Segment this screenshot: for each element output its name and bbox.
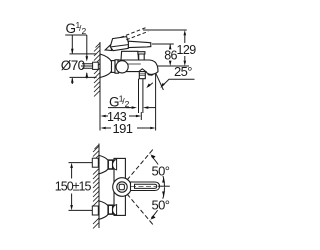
underline of G 1/2 xyxy=(65,34,87,36)
svg-text:25°: 25° xyxy=(174,64,192,79)
nipple collar square in wall xyxy=(93,62,99,69)
Ø70 extension lines xyxy=(70,54,97,78)
faucet body (bottom view) xyxy=(114,158,125,215)
svg-text:191: 191 xyxy=(113,121,133,136)
lever handle bar xyxy=(128,41,150,47)
dimension line 150±15 xyxy=(71,168,73,205)
dimension 143 xyxy=(106,115,136,117)
spout outlet direction line 25° xyxy=(156,73,164,90)
svg-text:50°: 50° xyxy=(152,163,170,178)
lever cap (side view) xyxy=(110,37,129,51)
label Ø70 xyxy=(61,58,85,73)
label 50° up xyxy=(151,163,171,178)
supply fitting square top xyxy=(92,158,98,167)
svg-text:150±15: 150±15 xyxy=(55,180,92,194)
arc 50° down xyxy=(151,187,164,218)
pivot outer circle xyxy=(113,178,132,197)
ext line top (129) xyxy=(143,29,187,31)
up arrow nipple bottom xyxy=(86,73,88,79)
Ø70 leader line xyxy=(81,65,94,67)
lever bar (bottom view) xyxy=(131,182,160,191)
label G 1/2 (top) xyxy=(66,20,87,36)
escutcheon cone bottom (bottom view) xyxy=(99,201,108,219)
angle arrow at hose line xyxy=(148,83,153,87)
ext line (86) from lever xyxy=(152,43,174,45)
lever bar inner detail xyxy=(135,184,157,188)
dashed raised-lever lines xyxy=(121,27,149,39)
leader arrow from G1/2 down (left, to Ø70 top ext) xyxy=(71,35,73,53)
union nut bottom (bottom view) xyxy=(108,205,113,214)
wall line (side view) xyxy=(99,42,101,96)
label 150±15 xyxy=(55,180,92,194)
dashed 50° line up xyxy=(127,154,150,181)
union nut top (bottom view) xyxy=(108,160,113,169)
leader arrow from G1/2 down (right, to nipple) xyxy=(86,35,88,57)
dimension 129 xyxy=(184,36,186,61)
dimension 86 xyxy=(169,44,171,61)
spout mouth lip xyxy=(148,74,154,75)
diverter knob on spout top xyxy=(138,52,145,54)
pipe nipple through wall xyxy=(82,64,98,68)
svg-text:50°: 50° xyxy=(152,197,170,212)
svg-text:86: 86 xyxy=(164,48,177,62)
escutcheon cone top (bottom view) xyxy=(99,155,108,173)
union circle xyxy=(116,61,128,73)
shower hose lines xyxy=(139,79,143,113)
svg-text:129: 129 xyxy=(177,43,197,57)
label G 1/2 (bottom, shower thread) xyxy=(109,93,130,109)
label 50° down xyxy=(151,197,171,212)
supply fitting square bottom xyxy=(92,206,98,215)
spout tube xyxy=(118,60,158,74)
wall hatching (side view) xyxy=(94,43,100,97)
cartridge collar xyxy=(121,51,139,60)
dimension 191 xyxy=(106,127,150,129)
svg-text:2: 2 xyxy=(82,26,87,36)
lever centerline dashes xyxy=(131,185,157,187)
lever cap seam xyxy=(111,45,128,47)
ext line bottom (spout axis) xyxy=(158,65,189,67)
wall hatching (bottom view) xyxy=(93,145,99,229)
up arrow Ø70 bottom xyxy=(71,78,73,84)
union nut (side view) xyxy=(112,61,116,73)
escutcheon cone (side view) xyxy=(100,54,112,78)
dashed 50° line down xyxy=(127,194,150,221)
lever left tail xyxy=(105,45,112,51)
spout tip extension line down xyxy=(155,74,157,131)
label 25° with leader xyxy=(174,64,192,79)
wall extension line down xyxy=(99,96,101,131)
body end bulge bottom xyxy=(113,205,117,216)
arc 50° up xyxy=(151,156,164,187)
underline / leader of bottom G1/2 with arrows xyxy=(108,107,131,109)
shower outlet under body xyxy=(139,69,146,72)
pivot inner circle xyxy=(117,182,127,192)
150±15 extension lines xyxy=(69,163,93,211)
svg-text:G: G xyxy=(66,21,77,36)
lever cross-section square xyxy=(119,184,124,190)
body end bulge top xyxy=(113,159,117,170)
tube shoulder line xyxy=(125,63,141,65)
wall line (bottom view) xyxy=(98,144,100,229)
